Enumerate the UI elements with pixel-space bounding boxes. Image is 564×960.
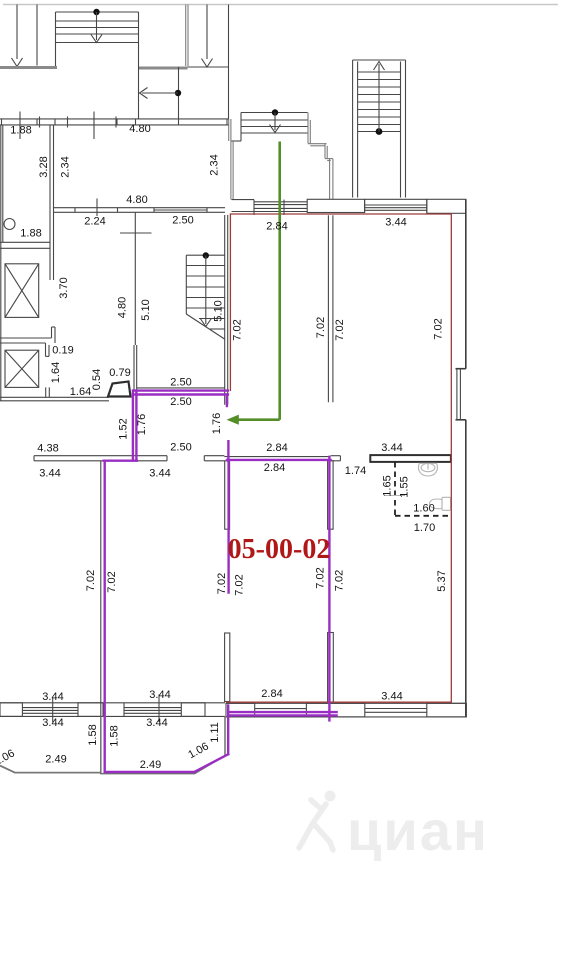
svg-text:1.52: 1.52 bbox=[118, 418, 130, 439]
dimension labels bbox=[0, 123, 448, 771]
porch dot+down arrow bbox=[270, 109, 281, 132]
svg-text:1.06: 1.06 bbox=[0, 747, 17, 768]
corridor guide line with down arrow (left) bbox=[12, 5, 23, 67]
left neighbour bay window bbox=[0, 766, 101, 773]
unit top wall band: porch sill left part bbox=[232, 200, 308, 215]
partition x135.3 bbox=[134, 212, 136, 345]
corridor wall thin y67 bbox=[188, 66, 229, 68]
entrance porch top edge with dot bbox=[232, 113, 308, 142]
svg-text:2.50: 2.50 bbox=[170, 377, 191, 389]
svg-text:циан: циан bbox=[347, 799, 489, 862]
red unit boundary bbox=[226, 214, 451, 702]
svg-text:4.80: 4.80 bbox=[126, 194, 147, 206]
purple tick down from 2.50 wall bbox=[226, 395, 228, 407]
wall x228.5 upper bbox=[228, 5, 230, 120]
svg-text:3.44: 3.44 bbox=[149, 468, 170, 480]
bathroom dashed wall horizontal bbox=[395, 515, 451, 517]
pier below wall left (x224.6-229.6) bbox=[225, 461, 230, 529]
svg-text:3.44: 3.44 bbox=[146, 717, 167, 729]
svg-text:1.60: 1.60 bbox=[413, 503, 434, 515]
svg-text:7.02: 7.02 bbox=[433, 318, 445, 339]
svg-text:1.11: 1.11 bbox=[209, 722, 221, 743]
corridor wall band middle single line over room 2.84 bbox=[224, 456, 330, 458]
thin wall line above purple 2.50 wall bbox=[137, 387, 225, 389]
unit top wall corner block x426.8-466 bbox=[427, 199, 466, 213]
svg-text:2.34: 2.34 bbox=[60, 156, 72, 177]
outer staircase top-right bbox=[353, 60, 406, 198]
left outer wall of neighbour block bbox=[0, 125, 2, 401]
svg-text:3.44: 3.44 bbox=[42, 717, 63, 729]
svg-text:2.84: 2.84 bbox=[266, 442, 287, 454]
top wall of left neighbour block (double with dividers) bbox=[0, 117, 229, 128]
bottom band blocks bbox=[0, 703, 22, 717]
svg-text:1.58: 1.58 bbox=[87, 724, 99, 745]
svg-text:2.84: 2.84 bbox=[261, 688, 282, 700]
svg-text:2.50: 2.50 bbox=[172, 215, 193, 227]
svg-text:0.19: 0.19 bbox=[52, 345, 73, 357]
svg-text:1.64: 1.64 bbox=[50, 362, 62, 383]
svg-text:0.79: 0.79 bbox=[109, 367, 130, 379]
svg-text:7.02: 7.02 bbox=[85, 570, 97, 591]
walls between elevators bbox=[0, 327, 55, 356]
unit right outer wall with window bbox=[456, 199, 466, 717]
svg-text:1.65: 1.65 bbox=[382, 475, 394, 496]
corridor dot+left arrow bbox=[140, 88, 182, 99]
svg-text:3.70: 3.70 bbox=[58, 277, 70, 298]
svg-text:4.80: 4.80 bbox=[129, 123, 150, 135]
unit left outer wall (double) bbox=[224, 215, 226, 405]
guide line with down arrow x207 bbox=[202, 5, 213, 68]
purple highlight: top wall double (2.50) bbox=[134, 389, 228, 391]
svg-text:2.24: 2.24 bbox=[84, 216, 105, 228]
purple along corridor wall y460 right part bbox=[227, 459, 331, 461]
wall x138.5 bbox=[138, 12, 140, 119]
door leaf symbol 0.79 bbox=[108, 382, 131, 397]
svg-text:7.02: 7.02 bbox=[315, 567, 327, 588]
unit bay window black outline bbox=[101, 716, 225, 773]
gray double wall x185.5-187.5 bbox=[185, 5, 187, 67]
svg-text:1.76: 1.76 bbox=[136, 414, 148, 435]
svg-text:2.84: 2.84 bbox=[264, 462, 285, 474]
svg-text:7.02: 7.02 bbox=[334, 570, 346, 591]
purple left wall double (1.52) bbox=[132, 391, 134, 461]
thick corridor wall segments bbox=[0, 66, 57, 69]
purple long left wall (7.02) bbox=[103, 461, 105, 772]
svg-text:1.88: 1.88 bbox=[20, 228, 41, 240]
wall bar x370.3-450.9 (solid) bbox=[370, 455, 451, 462]
bracket above bottom wall bbox=[45, 387, 47, 397]
svg-text:2.49: 2.49 bbox=[140, 759, 161, 771]
building edge left of porch double bbox=[228, 119, 230, 141]
stair walk line dot+arrow (top-left stair) bbox=[91, 9, 102, 43]
pier below wall right (x327.4-333.2) bbox=[328, 461, 334, 529]
svg-text:1.88: 1.88 bbox=[10, 125, 31, 137]
staircase top-left treads bbox=[56, 12, 139, 67]
room 1.88 bottom wall bbox=[0, 241, 51, 243]
unit top wall block x307-364.5 bbox=[307, 199, 364, 212]
svg-text:3.44: 3.44 bbox=[42, 691, 63, 703]
left wall of unit below corridor (black) bbox=[100, 461, 102, 717]
purple middle wall tick (through corridor wall) bbox=[227, 441, 229, 461]
partition lower-right (x327.4-333.4) bbox=[328, 633, 334, 703]
right wall window glass bbox=[456, 369, 458, 419]
purple bay right side 1.11 bbox=[227, 706, 229, 755]
svg-text:2.50: 2.50 bbox=[170, 442, 191, 454]
neighbour block bottom wall bbox=[0, 396, 109, 398]
svg-text:1.70: 1.70 bbox=[414, 522, 435, 534]
svg-text:3.44: 3.44 bbox=[381, 691, 402, 703]
green route arrow bbox=[237, 142, 280, 420]
bottom band windows bbox=[22, 703, 426, 717]
circle symbol room 1.88 bbox=[4, 219, 15, 230]
svg-text:2.34: 2.34 bbox=[209, 154, 221, 175]
svg-text:2.50: 2.50 bbox=[170, 396, 191, 408]
corridor wall band piece x330.6-340.4 bbox=[331, 456, 341, 461]
svg-text:2.84: 2.84 bbox=[266, 221, 287, 233]
bottom wall band of building bbox=[0, 703, 466, 717]
porch left wall double bbox=[230, 119, 232, 200]
partition between room 2.84 and big room (upper) bbox=[327, 215, 329, 402]
svg-text:7.02: 7.02 bbox=[334, 319, 346, 340]
svg-text:3.28: 3.28 bbox=[38, 156, 50, 177]
window dimension ticks on top wall bbox=[19, 112, 21, 140]
purple bottom double (2.84) bbox=[228, 711, 336, 713]
tick y233 bbox=[120, 232, 152, 234]
svg-text:5.37: 5.37 bbox=[436, 570, 448, 591]
purple jog on corridor wall bbox=[104, 460, 137, 462]
bottom band dimension ticks bbox=[52, 698, 54, 723]
svg-text:7.02: 7.02 bbox=[234, 574, 246, 595]
porch right side steps bbox=[308, 113, 333, 200]
svg-text:4.38: 4.38 bbox=[37, 443, 58, 455]
elevator shaft 2 bbox=[5, 350, 39, 387]
svg-text:5.10: 5.10 bbox=[213, 300, 225, 321]
svg-text:7.02: 7.02 bbox=[232, 319, 244, 340]
unit top wall window x364.5-426.8 bbox=[365, 199, 427, 212]
bathroom dim tick bbox=[385, 495, 405, 497]
outer stair dot+up arrow bbox=[374, 62, 385, 135]
svg-text:3.44: 3.44 bbox=[381, 442, 402, 454]
svg-text:1.58: 1.58 bbox=[109, 725, 121, 746]
toilet bbox=[430, 497, 451, 510]
horizontal wall y207.7-212.3 of 4.80 room bbox=[54, 208, 225, 213]
svg-text:5.10: 5.10 bbox=[140, 299, 152, 320]
svg-text:7.02: 7.02 bbox=[216, 573, 228, 594]
sink bbox=[418, 463, 437, 476]
svg-text:3.44: 3.44 bbox=[385, 217, 406, 229]
svg-text:1.06: 1.06 bbox=[186, 740, 211, 761]
svg-text:1.64: 1.64 bbox=[70, 386, 91, 398]
svg-text:7.02: 7.02 bbox=[106, 571, 118, 592]
svg-text:05-00-02: 05-00-02 bbox=[228, 534, 331, 565]
corridor wall band y455-461 left part bbox=[34, 456, 224, 461]
interior wall x50-53.5 bbox=[49, 125, 51, 280]
svg-text:3.44: 3.44 bbox=[39, 468, 60, 480]
bathroom dashed wall vertical bbox=[394, 462, 396, 516]
svg-text:1.76: 1.76 bbox=[211, 413, 223, 434]
elevator shaft 1 bbox=[5, 264, 39, 318]
purple bay diagonal 1.06 bbox=[194, 754, 228, 772]
corridor wall line x37 bbox=[36, 5, 38, 66]
watermark logo person bbox=[299, 791, 336, 851]
top boundary line bbox=[3, 4, 558, 6]
svg-text:0.54: 0.54 bbox=[91, 369, 103, 390]
inner stair dot+down arrow bbox=[200, 252, 211, 326]
corridor wall x178.5 bbox=[178, 67, 180, 119]
partition lower-left (x224.4-229.8) bbox=[225, 633, 230, 702]
inner staircase (5.10) bbox=[186, 255, 224, 339]
tick x97 bbox=[96, 199, 98, 217]
svg-text:1.74: 1.74 bbox=[345, 465, 366, 477]
purple middle wall (7.02 half) bbox=[227, 461, 229, 593]
purple bay bottom bbox=[105, 771, 195, 773]
purple right room wall (7.02) bbox=[328, 457, 330, 721]
svg-text:3.44: 3.44 bbox=[149, 689, 170, 701]
svg-text:4.80: 4.80 bbox=[117, 297, 129, 318]
svg-text:1.55: 1.55 bbox=[399, 476, 411, 497]
svg-text:2.49: 2.49 bbox=[45, 754, 66, 766]
svg-text:7.02: 7.02 bbox=[315, 317, 327, 338]
